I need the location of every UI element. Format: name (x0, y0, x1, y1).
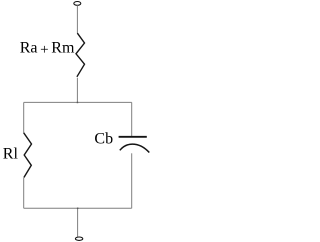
wire bottom node to terminal (77, 208, 79, 236)
terminal T1 (top) (74, 2, 81, 6)
capacitor Cb curved plate (120, 144, 150, 152)
wire left branch upper (23, 102, 25, 133)
wire top terminal to resistor (76, 5, 78, 33)
terminal T2 (bottom) (75, 237, 82, 240)
svg-text:Cb: Cb (94, 131, 113, 148)
svg-text:Rm: Rm (51, 40, 75, 57)
svg-text:Rl: Rl (3, 146, 19, 163)
svg-text:Ra: Ra (20, 40, 38, 57)
junction top node (77, 102, 79, 104)
junction bottom node (77, 208, 79, 210)
node bottom rail (24, 207, 132, 209)
node top rail (24, 101, 132, 103)
wire right branch lower (131, 153, 133, 208)
wire right branch upper (131, 102, 133, 136)
wire resistor to top node (76, 78, 78, 103)
svg-text:+: + (40, 42, 48, 58)
resistor Ra+Rm (76, 33, 85, 77)
resistor Rl (24, 133, 32, 178)
capacitor Cb top plate (119, 136, 147, 138)
wire left branch lower (23, 178, 25, 209)
